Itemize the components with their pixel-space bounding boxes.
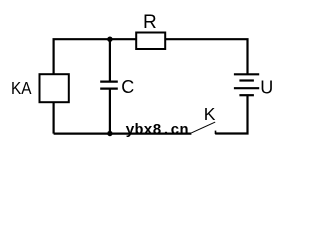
svg-text:ybx8.cn: ybx8.cn	[126, 122, 189, 139]
node top junction	[107, 37, 112, 42]
battery U plates	[234, 74, 259, 95]
capacitor C plates	[100, 82, 118, 89]
switch K lever	[191, 122, 215, 133]
svg-text:U: U	[260, 78, 273, 98]
svg-text:R: R	[143, 12, 157, 33]
switch K contact tick	[215, 131, 217, 134]
capacitor C branch wires	[109, 39, 111, 133]
relay coil KA	[40, 74, 69, 102]
wire top-right (resistor R to right corner, down to battery)	[165, 39, 247, 74]
wire bottom-right (switch contact to right corner, up to battery)	[215, 95, 247, 133]
node bottom junction	[107, 131, 112, 136]
wire top-left horizontal (left corner to resistor R)	[54, 39, 136, 133]
svg-text:C: C	[121, 77, 134, 97]
svg-text:K: K	[204, 104, 216, 124]
resistor R	[136, 33, 165, 50]
svg-text:KA: KA	[11, 78, 32, 98]
wire bottom (left corner to switch pivot)	[54, 133, 192, 135]
